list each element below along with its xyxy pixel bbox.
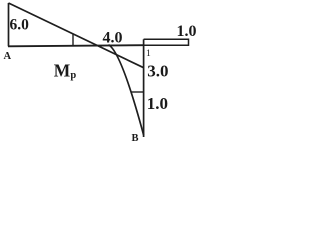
svg-text:6.0: 6.0 [10,16,30,33]
svg-text:Mp: Mp [54,61,77,81]
svg-text:1.0: 1.0 [147,94,168,113]
svg-text:1: 1 [146,49,151,59]
svg-text:1.0: 1.0 [177,23,197,40]
svg-text:A: A [4,51,12,62]
svg-text:4.0: 4.0 [103,29,123,46]
svg-text:3.0: 3.0 [147,61,168,80]
svg-text:B: B [132,133,139,142]
